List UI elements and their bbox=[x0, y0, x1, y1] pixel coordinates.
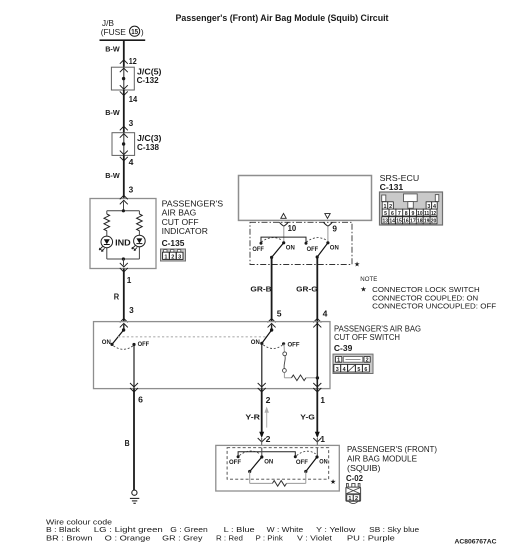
resistor right (indicator) bbox=[137, 214, 143, 231]
note text connector lock switch bbox=[360, 276, 496, 310]
star marker squib box bbox=[330, 477, 336, 486]
wire B-W busbar to J/C(5) pin 12 bbox=[105, 40, 137, 67]
svg-text:NOTE: NOTE bbox=[360, 276, 377, 283]
pin 1 of indicator bbox=[127, 276, 132, 285]
svg-text:16: 16 bbox=[403, 219, 409, 225]
svg-text:20: 20 bbox=[431, 219, 437, 225]
pin 4 of J/C(3) bbox=[120, 157, 134, 167]
svg-text:★: ★ bbox=[330, 477, 336, 486]
indicator exit chevrons bbox=[120, 263, 128, 272]
connector icon C-39 bbox=[333, 354, 373, 373]
star marker lock switch box bbox=[354, 260, 360, 269]
lock switch 1 (pin 10) bbox=[252, 238, 294, 259]
wire R indicator to cut off switch bbox=[114, 269, 135, 322]
svg-text:1: 1 bbox=[164, 254, 167, 260]
svg-text:AIR BAG MODULE: AIR BAG MODULE bbox=[347, 454, 417, 464]
svg-text:2: 2 bbox=[171, 254, 174, 260]
svg-text:INDICATOR: INDICATOR bbox=[162, 226, 208, 236]
svg-text:OFF: OFF bbox=[307, 246, 319, 253]
svg-text:6: 6 bbox=[138, 395, 143, 404]
ground bbox=[130, 490, 139, 503]
indicator LED right bbox=[132, 235, 145, 250]
squib resistor bbox=[250, 472, 306, 487]
svg-text:2: 2 bbox=[266, 435, 271, 444]
svg-text:R: R bbox=[114, 293, 120, 302]
svg-text:9: 9 bbox=[332, 224, 337, 233]
lock switch OFF bus bbox=[261, 237, 306, 243]
svg-text:6: 6 bbox=[364, 367, 367, 373]
wire 4 through cut off switch bbox=[316, 322, 318, 389]
svg-text:B-W: B-W bbox=[105, 108, 120, 117]
svg-text:BR : Brown: BR : Brown bbox=[46, 533, 93, 542]
svg-text:6: 6 bbox=[391, 211, 394, 217]
svg-text:ON: ON bbox=[319, 459, 327, 466]
svg-text:OFF: OFF bbox=[252, 246, 264, 253]
wire GR-G lock switch to cut off switch pin 4 bbox=[296, 257, 328, 327]
svg-text:PASSENGER'S (FRONT): PASSENGER'S (FRONT) bbox=[347, 444, 437, 454]
squib shorting bus bbox=[238, 452, 295, 457]
svg-text:SRS-ECU: SRS-ECU bbox=[380, 173, 420, 183]
wire GR-B lock switch to cut off switch pin 5 bbox=[250, 257, 282, 327]
svg-text:13: 13 bbox=[382, 219, 388, 225]
svg-text:R : Red: R : Red bbox=[216, 533, 243, 542]
current direction arrow bbox=[265, 407, 269, 427]
svg-text:(SQUIB): (SQUIB) bbox=[347, 463, 381, 473]
svg-text:B-W: B-W bbox=[105, 171, 120, 180]
junction connector J/C(5) C-132 bbox=[111, 67, 161, 90]
svg-text:18: 18 bbox=[417, 219, 423, 225]
svg-text:V : Violet: V : Violet bbox=[297, 533, 333, 542]
squib inner dashed box bbox=[227, 448, 329, 480]
svg-text:10: 10 bbox=[417, 211, 422, 217]
svg-text:ON: ON bbox=[264, 459, 273, 466]
svg-text:3: 3 bbox=[336, 367, 339, 373]
svg-text:5: 5 bbox=[384, 211, 387, 217]
J/B bus bar bbox=[100, 39, 146, 41]
svg-text:11: 11 bbox=[424, 211, 429, 217]
svg-text:15: 15 bbox=[131, 29, 138, 36]
svg-text:OFF: OFF bbox=[288, 342, 300, 349]
svg-text:GR-G: GR-G bbox=[296, 285, 317, 294]
svg-text:): ) bbox=[141, 27, 144, 37]
svg-text:CONNECTOR UNCOUPLED: OFF: CONNECTOR UNCOUPLED: OFF bbox=[372, 301, 496, 310]
svg-text:GR : Grey: GR : Grey bbox=[162, 533, 203, 542]
svg-text:1: 1 bbox=[127, 276, 132, 285]
connector icon C-02 bbox=[346, 484, 361, 504]
svg-text:(FUSE: (FUSE bbox=[101, 27, 127, 37]
svg-text:OFF: OFF bbox=[229, 459, 241, 466]
svg-text:OFF: OFF bbox=[296, 459, 308, 466]
title bbox=[176, 13, 389, 23]
svg-text:IND: IND bbox=[115, 238, 131, 247]
indicator internal wiring bbox=[107, 202, 140, 266]
svg-text:8: 8 bbox=[405, 211, 408, 217]
svg-text:15: 15 bbox=[396, 219, 402, 225]
svg-text:ON: ON bbox=[286, 245, 295, 252]
svg-text:1: 1 bbox=[320, 396, 325, 405]
svg-text:10: 10 bbox=[288, 224, 297, 233]
svg-text:OFF: OFF bbox=[138, 341, 150, 348]
svg-text:3: 3 bbox=[129, 306, 134, 315]
svg-text:C-02: C-02 bbox=[346, 474, 363, 483]
svg-text:ON: ON bbox=[102, 339, 111, 346]
cut off switch bottom pins 6 2 1 bbox=[130, 383, 326, 405]
wire B-W J/C(5) to J/C(3) bbox=[105, 90, 134, 133]
svg-text:★: ★ bbox=[360, 284, 367, 293]
wire Y-R cut off switch to squib pin 2 bbox=[245, 389, 271, 446]
connector icon C-135 bbox=[161, 249, 186, 261]
svg-text:3: 3 bbox=[129, 186, 134, 195]
cut off switch pole A (indicator side) bbox=[102, 324, 149, 388]
svg-text:9: 9 bbox=[412, 211, 415, 217]
mechanical linkage dashed line bbox=[118, 336, 267, 338]
svg-text:2: 2 bbox=[266, 396, 271, 405]
svg-text:1: 1 bbox=[337, 358, 340, 364]
svg-text:2: 2 bbox=[366, 358, 369, 364]
svg-text:12: 12 bbox=[431, 211, 436, 217]
cut off switch pole B (squib side) bbox=[251, 324, 300, 388]
cut off switch labels and connector C-39 bbox=[334, 323, 421, 353]
svg-text:C-132: C-132 bbox=[137, 76, 160, 85]
svg-text:J/C(3): J/C(3) bbox=[137, 134, 162, 143]
female terminal fork pin 9 bbox=[324, 222, 338, 242]
svg-text:C-131: C-131 bbox=[380, 183, 404, 192]
svg-text:P : Pink: P : Pink bbox=[256, 533, 284, 542]
squib switch 2 bbox=[294, 448, 328, 473]
junction block J/B (FUSE 15) label bbox=[101, 18, 144, 37]
wire B-W J/C(3) to indicator bbox=[105, 155, 134, 198]
SRS-ECU labels bbox=[380, 173, 420, 192]
junction connector J/C(3) C-138 bbox=[112, 133, 162, 156]
chevrons pin 3 into cut off switch bbox=[120, 318, 128, 327]
svg-text:AC806767AC: AC806767AC bbox=[455, 539, 498, 546]
svg-text:3: 3 bbox=[178, 254, 181, 260]
connector lock switch dash-dot box bbox=[250, 222, 352, 264]
svg-text:GR-B: GR-B bbox=[250, 285, 272, 294]
svg-text:14: 14 bbox=[129, 95, 138, 104]
squib switch 1 bbox=[229, 448, 273, 473]
svg-text:C-39: C-39 bbox=[334, 344, 353, 353]
female terminal fork pin 10 bbox=[279, 222, 296, 242]
svg-text:O : Orange: O : Orange bbox=[105, 533, 151, 542]
svg-text:B-W: B-W bbox=[105, 44, 120, 53]
svg-text:Passenger's (Front) Air Bag Mo: Passenger's (Front) Air Bag Module (Squi… bbox=[176, 13, 389, 23]
svg-text:★: ★ bbox=[354, 260, 360, 269]
svg-text:4: 4 bbox=[343, 367, 346, 373]
passenger airbag cut off switch box bbox=[94, 322, 331, 389]
passenger front air bag module squib box bbox=[216, 445, 339, 491]
label IND bbox=[115, 238, 131, 247]
wire Y-G cut off switch to squib pin 1 bbox=[300, 389, 325, 446]
connector icon C-131 bbox=[380, 192, 443, 225]
svg-text:5: 5 bbox=[357, 367, 360, 373]
svg-text:PU : Purple: PU : Purple bbox=[347, 533, 395, 542]
polarity triangle down (pin 9) bbox=[325, 214, 330, 219]
svg-text:17: 17 bbox=[410, 219, 416, 225]
squib labels and connector C-02 bbox=[346, 444, 437, 483]
pin 14 of J/C(5) bbox=[120, 91, 138, 104]
lock switch 2 (pin 9) bbox=[305, 238, 339, 259]
wire B to ground bbox=[125, 389, 134, 490]
resistor left (indicator) bbox=[104, 214, 110, 231]
svg-text:B: B bbox=[125, 439, 130, 448]
svg-text:Y-G: Y-G bbox=[300, 413, 315, 422]
svg-text:4: 4 bbox=[323, 309, 328, 318]
svg-text:ON: ON bbox=[251, 339, 260, 346]
resistor (cut off switch dummy load) bbox=[284, 375, 319, 381]
SRS-ECU box bbox=[239, 176, 372, 221]
indicator LED left bbox=[99, 236, 112, 251]
svg-text:14: 14 bbox=[389, 219, 395, 225]
shorting terminals (two circles) bbox=[283, 344, 287, 378]
polarity triangle up (pin 10) bbox=[281, 213, 286, 218]
svg-text:19: 19 bbox=[424, 219, 430, 225]
svg-text:C-135: C-135 bbox=[162, 239, 185, 248]
wire colour code legend bbox=[46, 517, 419, 542]
indicator side labels and connector C-135 bbox=[162, 199, 224, 248]
passenger airbag cut off indicator box bbox=[90, 195, 156, 268]
document number bbox=[455, 539, 498, 546]
svg-text:ON: ON bbox=[330, 245, 339, 252]
svg-text:12: 12 bbox=[129, 57, 137, 66]
svg-text:4: 4 bbox=[129, 158, 134, 167]
svg-text:CUT OFF SWITCH: CUT OFF SWITCH bbox=[334, 332, 400, 342]
svg-text:Y-R: Y-R bbox=[245, 413, 260, 422]
svg-text:1: 1 bbox=[320, 435, 325, 444]
svg-text:7: 7 bbox=[398, 211, 401, 217]
svg-text:C-138: C-138 bbox=[137, 143, 160, 152]
svg-text:3: 3 bbox=[129, 119, 134, 128]
svg-text:5: 5 bbox=[277, 310, 282, 319]
